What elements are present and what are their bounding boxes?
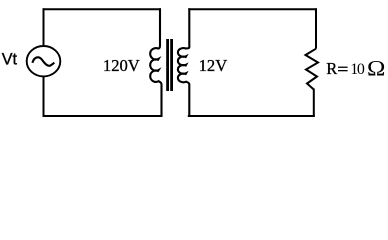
svg-text:Vt: Vt	[2, 51, 18, 69]
label equals sign upper bar	[338, 67, 348, 68]
svg-text:120V: 120V	[103, 56, 140, 75]
svg-text:0: 0	[357, 61, 365, 78]
wire: secondary loop bottom	[188, 115, 315, 117]
wire: primary loop left lower segment	[43, 76, 45, 117]
wire: secondary loop right lower segment	[313, 89, 315, 117]
resistor R zigzag	[306, 49, 319, 90]
transformer primary winding L1 (3 loops) with connecting wires	[150, 8, 161, 117]
wire: primary loop bottom	[43, 115, 163, 117]
transformer secondary winding L2 (4 loops) with connecting wires	[178, 8, 189, 117]
wire: primary loop left upper segment	[43, 8, 45, 46]
transformer core bar 1	[166, 39, 169, 91]
svg-text:12V: 12V	[199, 56, 228, 75]
label equals sign lower bar	[338, 70, 348, 71]
wire: secondary loop right upper segment	[315, 8, 317, 48]
wire: primary loop top	[43, 8, 162, 10]
AC source sine wave	[32, 57, 54, 66]
transformer core bar 2	[170, 39, 173, 91]
svg-text:R: R	[326, 59, 337, 78]
wire: secondary loop top	[188, 8, 317, 10]
AC source Vt circle	[27, 46, 61, 76]
svg-text:Ω: Ω	[367, 57, 385, 82]
